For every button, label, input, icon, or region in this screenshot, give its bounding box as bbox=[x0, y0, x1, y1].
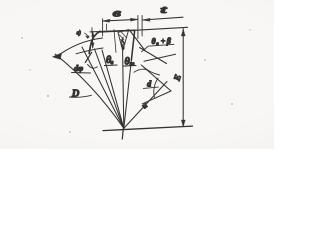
triangle tip arrow bbox=[122, 47, 125, 51]
apex tick below baseline bbox=[122, 128, 123, 140]
thin line inside tooth bbox=[114, 30, 116, 53]
wedge upper line bbox=[143, 66, 172, 91]
dimension t line bbox=[143, 17, 183, 20]
small tick below b line bbox=[106, 24, 108, 30]
hatched triangle on tooth bbox=[118, 30, 129, 51]
svg-text:ε): ε) bbox=[77, 29, 81, 36]
dimension t left arrow bbox=[143, 18, 151, 21]
triangle inner mark bbox=[122, 38, 125, 47]
tooth face bold segment bbox=[131, 30, 134, 60]
extension line left of b bbox=[102, 19, 104, 36]
angle arc near face bbox=[134, 69, 148, 72]
extension line pair at tooth face bbox=[137, 16, 139, 39]
wire left tick of top line bbox=[91, 28, 93, 34]
fan ray 2 bbox=[82, 47, 124, 128]
dimension E vertical line bbox=[182, 29, 184, 126]
svg-text:E: E bbox=[171, 73, 183, 83]
angle arc between rays bbox=[88, 64, 98, 68]
chamfer line from triangle corner bbox=[131, 32, 146, 51]
angle line B1 bbox=[140, 48, 167, 64]
arc d-phi bbox=[56, 38, 103, 58]
dimension b left arrow bbox=[103, 19, 111, 22]
fan ray 3 bbox=[95, 49, 124, 128]
tooth land bold segment bbox=[100, 30, 135, 32]
small arc of angle d bbox=[154, 78, 158, 98]
triangle hatching bbox=[119, 32, 126, 47]
fan ray 3b bbox=[102, 50, 124, 128]
ray N bbox=[124, 82, 167, 129]
svg-text:d: d bbox=[147, 79, 152, 89]
dimension b right arrow bbox=[130, 18, 138, 21]
wire top line through tooth tip to E corner bbox=[90, 27, 188, 32]
dimension E top arrow bbox=[181, 29, 185, 36]
line from junction toward triangle base bbox=[76, 48, 103, 54]
svg-text:dφ: dφ bbox=[74, 63, 83, 73]
wedge lower line bbox=[142, 91, 171, 104]
svg-text:т: т bbox=[130, 61, 135, 68]
tooth face ray bbox=[124, 30, 135, 128]
dimension E bottom arrow bbox=[181, 120, 185, 127]
dimension b line bbox=[103, 19, 138, 21]
paper noise specks bbox=[21, 21, 251, 133]
baseline through apex bbox=[103, 126, 193, 131]
fan ray 4 bbox=[123, 51, 124, 128]
svg-text:+: + bbox=[161, 37, 166, 46]
radius line D bbox=[55, 54, 124, 128]
svg-text:в: в bbox=[113, 6, 121, 19]
junction stroke below tooth back bbox=[85, 52, 91, 62]
svg-text:D: D bbox=[71, 89, 80, 100]
svg-text:t: t bbox=[161, 3, 169, 16]
arc d-phi arrow bbox=[53, 53, 62, 59]
small vertical dimension at tooth back bbox=[92, 32, 94, 48]
angle arc lower bbox=[141, 65, 160, 75]
tooth back outline bbox=[89, 31, 100, 53]
angle line B2 bbox=[144, 54, 176, 61]
